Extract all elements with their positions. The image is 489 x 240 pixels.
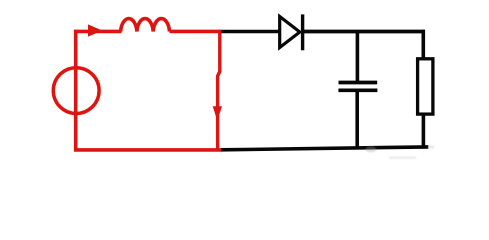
wire: resistor bottom lead	[422, 114, 426, 148]
diode D1 triangle	[280, 17, 300, 48]
wire: red bottom horizontal	[74, 148, 222, 152]
wire: black top horizontal (node to diode anode)	[221, 30, 280, 34]
resistor R1 (load)	[418, 59, 433, 114]
voltage source V1 (circle)	[53, 68, 99, 114]
wire: red left vertical branch	[74, 30, 78, 152]
wire: capacitor top lead	[356, 32, 360, 82]
capacitor C1 bottom plate	[338, 88, 377, 92]
switch current arrow (down)	[213, 106, 222, 121]
watermark smudge on bottom wire	[366, 146, 435, 153]
wire: red top horizontal (source to inductor)	[74, 30, 122, 34]
wire: red middle vertical branch with jog (switch path)	[218, 30, 220, 150]
wire: right vertical lead (top wire to resistor)	[421, 30, 425, 59]
wire: black top horizontal (diode cathode to right corner)	[303, 30, 425, 34]
inductor L1 (three humps)	[121, 19, 170, 32]
wire: red top horizontal (inductor to node)	[170, 30, 222, 34]
capacitor C1 top plate	[339, 81, 378, 85]
wire: capacitor bottom lead	[355, 91, 359, 149]
current arrow (input current direction)	[88, 24, 103, 36]
wire: black bottom horizontal	[221, 147, 428, 150]
diode D1 cathode bar	[301, 14, 304, 50]
watermark text row	[389, 157, 416, 159]
